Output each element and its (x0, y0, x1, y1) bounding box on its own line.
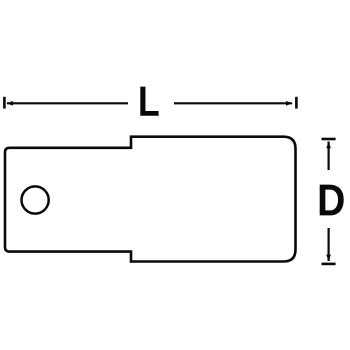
dimension L left tick (3, 97, 6, 109)
dimension L left line (7, 102, 128, 104)
dimension D top tick (322, 138, 336, 141)
dimension D down arrowhead (326, 255, 331, 262)
dimension D upper line (328, 142, 330, 171)
dimension label D (320, 185, 344, 216)
dimension L right arrowhead (286, 101, 293, 106)
dimension label L (140, 87, 158, 116)
dimension L right tick (295, 97, 298, 109)
dimension D bottom tick (322, 263, 336, 266)
dimension L right line (174, 102, 292, 104)
part outline (body with left tab) (5, 137, 296, 262)
dimension L left arrowhead (6, 101, 13, 106)
hole (21, 186, 48, 213)
dimension D up arrowhead (326, 142, 331, 149)
dimension D lower line (328, 228, 330, 261)
